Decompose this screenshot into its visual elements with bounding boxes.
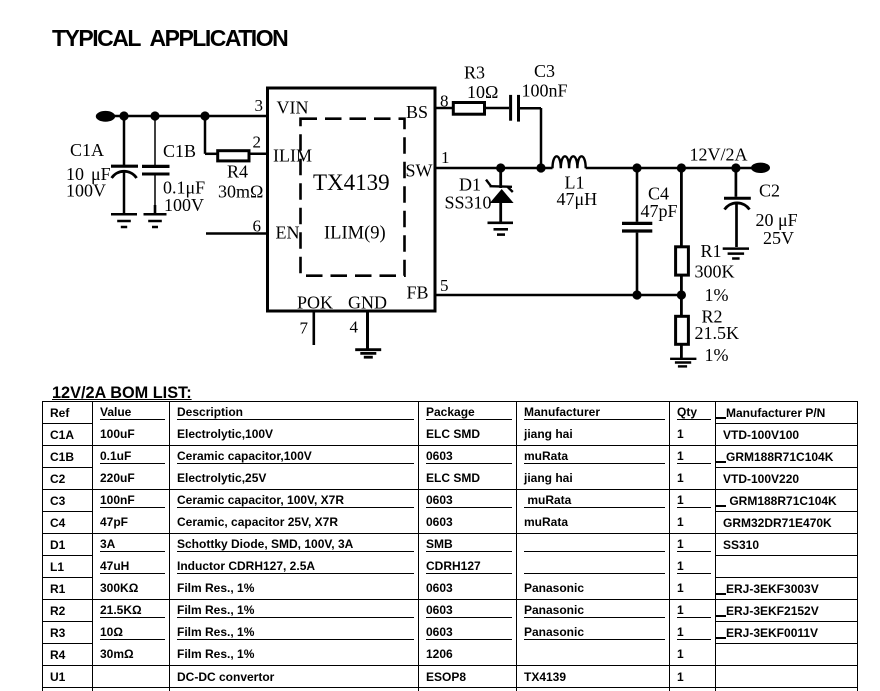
wire SW rail [435, 167, 553, 170]
resistor R3 [453, 103, 484, 115]
node FB-C4 [632, 290, 641, 299]
label C2 [756, 181, 798, 249]
resistor R2 [676, 295, 689, 358]
node OUT-C4 [632, 163, 641, 172]
wire L1-output [586, 167, 752, 170]
node SW-D1 [496, 163, 505, 172]
svg-text:SW: SW [406, 161, 433, 181]
node VIN-R4 [200, 111, 209, 120]
svg-text:R1: R1 [701, 241, 722, 261]
wire VIN rail [105, 115, 268, 118]
svg-text:GND: GND [348, 293, 387, 313]
svg-text:300K: 300K [695, 262, 735, 282]
resistor R4 [205, 116, 268, 161]
BOM table [42, 401, 858, 691]
svg-text:21.5K: 21.5K [695, 323, 740, 343]
diode D1 [486, 168, 514, 222]
svg-text:R4: R4 [227, 162, 248, 182]
node FB-R1R2 [677, 290, 686, 299]
svg-text:3: 3 [255, 96, 264, 115]
label R3 [464, 63, 498, 103]
output terminal [751, 163, 770, 173]
svg-text:2: 2 [253, 133, 262, 152]
svg-text:30mΩ: 30mΩ [218, 182, 263, 202]
svg-text:47μH: 47μH [557, 189, 598, 209]
svg-text:VIN: VIN [277, 98, 309, 118]
ground C1A [111, 214, 137, 227]
label R2 [695, 307, 740, 366]
svg-text:BS: BS [406, 102, 428, 122]
svg-text:C1A: C1A [70, 140, 104, 160]
node VIN-C1B [150, 111, 159, 120]
ground C2 [723, 249, 749, 259]
svg-text:FB: FB [407, 283, 429, 303]
svg-text:100V: 100V [66, 181, 106, 201]
svg-text:1%: 1% [705, 285, 729, 305]
label C1A [66, 140, 111, 201]
pin 7 POK stub [312, 311, 315, 345]
svg-text:4: 4 [350, 318, 359, 337]
svg-text:μF: μF [778, 210, 798, 230]
svg-text:100nF: 100nF [522, 81, 568, 101]
input terminal [96, 111, 115, 122]
svg-text:1: 1 [441, 148, 450, 167]
pin 4 GND stub [366, 311, 369, 349]
svg-text:ILIM: ILIM [273, 146, 312, 166]
label C3 [522, 61, 568, 101]
resistor R1 [676, 168, 689, 295]
node OUT-C2 [731, 163, 740, 172]
svg-text:TX4139: TX4139 [313, 170, 390, 195]
title [52, 25, 287, 52]
wire FB [435, 294, 681, 297]
wire EN stub [206, 232, 268, 235]
ground C1B [144, 214, 167, 227]
svg-text:7: 7 [300, 319, 309, 338]
node OUT-R1 [677, 163, 686, 172]
dashed inner box [301, 119, 405, 276]
label L1 [557, 173, 598, 210]
capacitor C1A [111, 116, 138, 213]
svg-text:47pF: 47pF [641, 201, 678, 221]
svg-text:12V/2A: 12V/2A [690, 145, 748, 165]
svg-text:C1B: C1B [163, 141, 196, 161]
svg-text:25V: 25V [763, 228, 794, 248]
svg-text:R3: R3 [464, 63, 485, 83]
capacitor C2 [724, 168, 751, 247]
svg-text:ILIM(9): ILIM(9) [324, 224, 386, 244]
capacitor C4 [622, 168, 652, 295]
wire R3-C3 [485, 107, 509, 110]
wire BS [435, 107, 454, 110]
inductor L1 [553, 156, 586, 168]
pin numbers [253, 92, 450, 338]
svg-text:C2: C2 [759, 181, 780, 201]
capacitor C3 [511, 95, 541, 168]
label TX4139 [313, 170, 390, 244]
svg-text:10Ω: 10Ω [467, 82, 498, 102]
svg-text:6: 6 [253, 217, 262, 236]
ground GND pin [355, 350, 381, 358]
svg-text:20: 20 [756, 210, 774, 230]
label R1 [695, 241, 735, 305]
capacitor C1B [142, 116, 170, 213]
label C1B [163, 141, 205, 215]
svg-text:C3: C3 [534, 61, 555, 81]
op-amp U1 TX4139 box [268, 88, 436, 311]
ground R2 [670, 359, 696, 367]
label D1 [445, 175, 492, 213]
svg-text:POK: POK [297, 293, 333, 313]
svg-text:5: 5 [440, 276, 449, 295]
svg-text:EN: EN [276, 223, 300, 243]
node VIN-C1A [119, 111, 128, 120]
label 12V/2A [690, 145, 748, 165]
BOM list heading [52, 384, 192, 403]
label C4 [641, 184, 678, 222]
svg-text:D1: D1 [459, 175, 481, 195]
node SW-C3 [536, 163, 545, 172]
svg-text:SS310: SS310 [445, 193, 492, 213]
ground D1 [488, 223, 514, 235]
svg-text:100V: 100V [164, 195, 204, 215]
svg-text:1%: 1% [705, 345, 729, 365]
label R4 [218, 162, 263, 202]
pin labels [273, 98, 433, 313]
